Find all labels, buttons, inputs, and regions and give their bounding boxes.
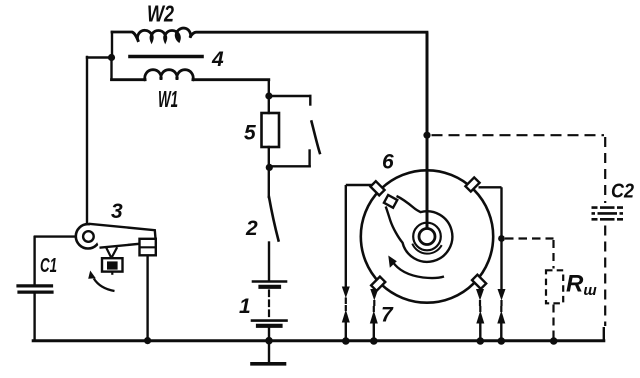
svg-text:4: 4 <box>211 48 224 71</box>
svg-text:C1: C1 <box>40 255 57 277</box>
svg-text:Rш: Rш <box>566 271 597 300</box>
svg-text:1: 1 <box>239 295 251 318</box>
svg-text:W2: W2 <box>147 1 174 27</box>
svg-text:2: 2 <box>245 217 258 240</box>
svg-text:5: 5 <box>244 122 256 145</box>
svg-text:7: 7 <box>381 304 394 327</box>
svg-text:W1: W1 <box>158 86 178 112</box>
svg-text:3: 3 <box>111 200 123 223</box>
svg-text:6: 6 <box>382 151 394 174</box>
svg-text:C2: C2 <box>611 181 634 203</box>
